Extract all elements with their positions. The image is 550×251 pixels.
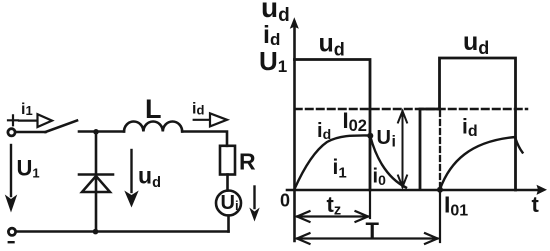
point I02 dot <box>367 133 373 139</box>
switch S (open blade) <box>46 121 78 133</box>
wire: inductor to top-right corner and down to resistor <box>182 132 227 146</box>
dimension T double arrow <box>297 233 438 244</box>
inductor L <box>124 121 182 131</box>
axis horizontal arrowhead <box>537 185 548 195</box>
plus sign label <box>8 115 18 125</box>
extension line below axis at tz <box>369 190 371 218</box>
wire: top terminal to switch <box>15 131 45 134</box>
arrow ud (rectified voltage, down) <box>130 150 132 192</box>
svg-text:L: L <box>145 94 162 124</box>
axis vertical arrowhead <box>290 17 299 29</box>
dashed level line Ui <box>295 108 527 111</box>
diode VD triangle (anode bottom, cathode top) <box>82 176 110 192</box>
curve decay stub after pulse 2 <box>516 139 523 153</box>
curve i0 (freewheel decay) <box>371 137 407 188</box>
arrow Ui measure (double headed vertical) <box>398 111 407 187</box>
dashed vertical at I01 (start of period 2) <box>439 111 441 187</box>
source Ui circle <box>216 191 241 216</box>
wire: resistor to source Ui <box>226 175 229 191</box>
wire: node A to inductor <box>96 130 124 133</box>
svg-text:R: R <box>239 149 256 175</box>
terminal - (bottom left input terminal) <box>8 228 15 235</box>
node B junction dot (diode anode on bottom rail) <box>93 229 99 235</box>
arrow id (load current) <box>194 119 210 121</box>
node A junction dot <box>93 129 99 135</box>
ud zero interval then Ui step (vertical rise at current zero) <box>420 109 440 189</box>
ud pulse 2 (rising edge, top, falling edge) <box>440 58 516 190</box>
diode VD cathode bar <box>79 173 113 176</box>
resistor R <box>220 146 235 175</box>
svg-text:t: t <box>532 192 540 217</box>
terminal + (top left input terminal) <box>8 129 15 136</box>
wire: bottom rail <box>16 230 229 233</box>
ud pulse 1 (top and falling edge) <box>295 60 371 191</box>
point I01 dot <box>437 187 443 193</box>
svg-text:id: id <box>192 101 204 118</box>
curve id period 2 (rising exponential) <box>440 137 516 189</box>
extension line below axis at I01 <box>439 190 441 242</box>
axis horizontal (t axis) <box>287 189 538 192</box>
svg-text:i1: i1 <box>21 101 33 118</box>
arrow i1 (input current) <box>19 119 38 121</box>
minus sign label <box>9 241 14 243</box>
arrow U1 (input voltage, down) <box>10 145 12 196</box>
curve id period 1 (rising exponential) <box>295 135 370 189</box>
wire: source to bottom rail <box>227 216 230 232</box>
svg-text:T: T <box>366 218 380 243</box>
diode VD vertical branch wire <box>95 133 98 230</box>
dimension tz double arrow <box>297 211 368 222</box>
svg-text:0: 0 <box>280 191 290 211</box>
arrow Ui polarity (down arrow right of source) <box>253 187 255 209</box>
wire: switch fixed contact to node A <box>79 130 95 133</box>
axis vertical (ud, id axis) <box>293 22 296 241</box>
